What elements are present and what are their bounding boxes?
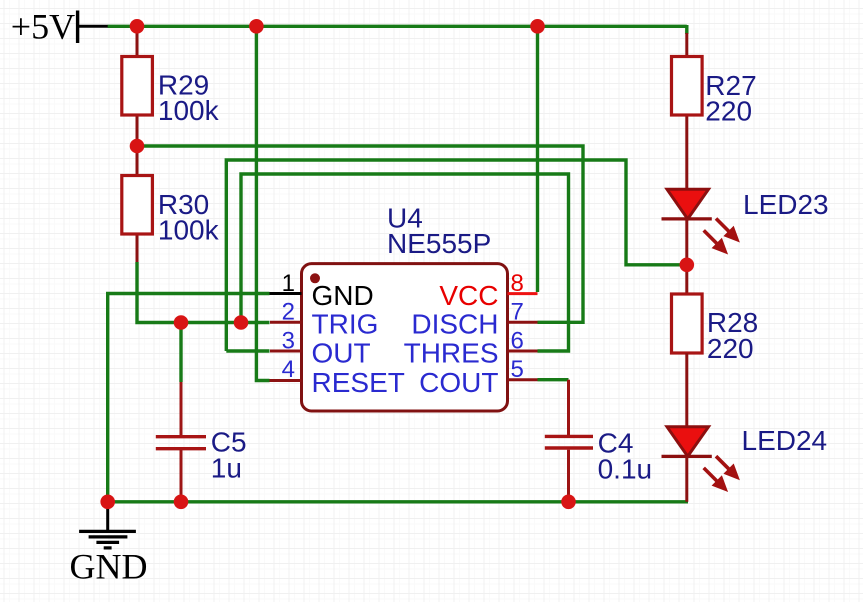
svg-text:GND: GND xyxy=(312,280,374,311)
LED LED23 xyxy=(662,189,739,253)
wire net TRIG: R30 bottom to pin 2 xyxy=(137,262,270,323)
pin 6 THRES lead xyxy=(508,350,538,353)
svg-text:7: 7 xyxy=(511,299,524,326)
wire net GND bottom rail xyxy=(108,500,688,503)
resistor R27 xyxy=(672,33,703,189)
svg-text:100k: 100k xyxy=(158,215,220,246)
resistor R30 xyxy=(122,146,153,262)
svg-text:COUT: COUT xyxy=(419,367,498,398)
svg-text:220: 220 xyxy=(705,96,752,127)
wire net TRIG stub to C5 xyxy=(179,323,182,383)
pin 2 TRIG lead xyxy=(270,321,302,324)
capacitor C5 xyxy=(156,382,206,502)
power flag +5V symbol xyxy=(76,11,108,44)
ground symbol xyxy=(79,502,136,548)
svg-text:TRIG: TRIG xyxy=(312,309,379,340)
wire net +5V drop to R27 xyxy=(685,25,688,34)
svg-text:NE555P: NE555P xyxy=(387,228,491,259)
svg-text:1: 1 xyxy=(282,270,295,297)
junction LED23/R28/OUT xyxy=(680,258,695,273)
wire LED23 cathode to R28 xyxy=(685,219,688,294)
wire net +5V drop to pin 4 RESET xyxy=(256,26,269,380)
svg-text:4: 4 xyxy=(282,356,295,383)
pin 3 OUT lead xyxy=(270,350,302,353)
IC U4 NE555P body xyxy=(302,264,508,411)
svg-text:+5V: +5V xyxy=(11,6,75,46)
junction TRIG/THRES xyxy=(234,315,249,330)
junction at VCC column xyxy=(530,19,545,34)
svg-text:RESET: RESET xyxy=(312,367,405,398)
svg-text:LED23: LED23 xyxy=(743,189,829,220)
pin 8 VCC lead (red) xyxy=(508,292,538,295)
junction C5 bottom xyxy=(174,495,189,510)
svg-text:VCC: VCC xyxy=(439,280,498,311)
svg-text:220: 220 xyxy=(707,333,754,364)
resistor R28 xyxy=(672,294,703,427)
capacitor C4 xyxy=(545,380,593,502)
svg-text:0.1u: 0.1u xyxy=(598,454,653,485)
pin 7 DISCH lead xyxy=(508,321,538,324)
wire net OUT: pin 3 stub xyxy=(226,349,269,352)
pin 5 COUT lead xyxy=(508,378,538,381)
wire net OUT: up over to LED23/R28 junction xyxy=(226,160,687,351)
LED LED24 xyxy=(662,427,739,502)
svg-text:5: 5 xyxy=(511,356,524,383)
resistor R29 xyxy=(122,26,153,146)
svg-text:8: 8 xyxy=(511,270,524,297)
svg-text:LED24: LED24 xyxy=(742,425,828,456)
junction TRIG/C5 xyxy=(174,315,189,330)
wire net +5V drop to pin 8 VCC xyxy=(536,26,539,292)
junction at R29 top xyxy=(130,19,145,34)
pin 4 RESET lead xyxy=(270,379,302,382)
junction C4 bottom xyxy=(561,495,576,510)
junction R29/R30/DISCH xyxy=(130,139,145,154)
wire net COUT: pin 5 to C4 xyxy=(538,378,569,381)
svg-text:3: 3 xyxy=(282,327,295,354)
wire net DISCH: R29/R30 junction to pin 7 xyxy=(137,146,583,322)
svg-text:OUT: OUT xyxy=(312,338,371,369)
svg-text:1u: 1u xyxy=(211,452,242,483)
junction GND rail / ground xyxy=(100,495,115,510)
wire net GND up to pin 1 xyxy=(108,294,270,502)
svg-text:DISCH: DISCH xyxy=(411,309,498,340)
wire net +5V top rail xyxy=(108,25,687,28)
svg-text:100k: 100k xyxy=(158,95,220,126)
pin 1 GND lead (black) xyxy=(270,292,302,295)
svg-text:THRES: THRES xyxy=(404,338,499,369)
wire net TRIG-THRES link to pin 6 xyxy=(241,174,569,351)
svg-text:GND: GND xyxy=(70,547,148,587)
svg-text:2: 2 xyxy=(282,299,295,326)
junction at RESET column xyxy=(249,19,264,34)
svg-text:6: 6 xyxy=(511,327,524,354)
